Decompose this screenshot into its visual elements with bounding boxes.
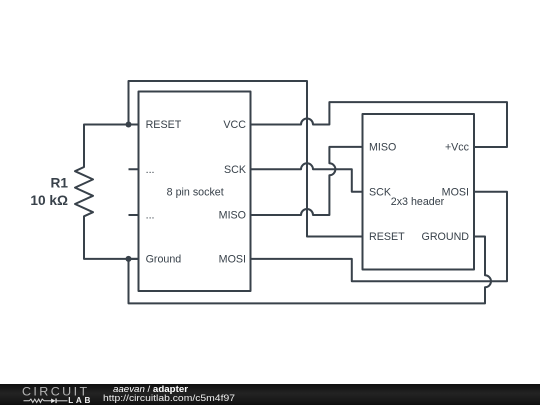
svg-text:SCK: SCK	[369, 186, 392, 198]
svg-text:Ground: Ground	[146, 254, 182, 266]
svg-text:R1: R1	[51, 176, 69, 191]
svg-text:RESET: RESET	[146, 119, 182, 131]
svg-text:8 pin socket: 8 pin socket	[167, 186, 224, 198]
svg-text:2x3 header: 2x3 header	[391, 196, 445, 208]
svg-text:GROUND: GROUND	[422, 231, 470, 243]
svg-text:...: ...	[146, 164, 155, 176]
svg-text:MOSI: MOSI	[219, 254, 246, 266]
svg-text:MOSI: MOSI	[442, 186, 469, 198]
svg-text:+Vcc: +Vcc	[445, 142, 470, 154]
svg-text:VCC: VCC	[223, 119, 246, 131]
svg-text:RESET: RESET	[369, 231, 405, 243]
svg-text:SCK: SCK	[224, 164, 247, 176]
svg-text:10 kΩ: 10 kΩ	[30, 193, 68, 208]
svg-text:MISO: MISO	[369, 142, 396, 154]
svg-text:http://circuitlab.com/c5m4f97: http://circuitlab.com/c5m4f97	[103, 393, 235, 403]
svg-text:LAB: LAB	[68, 396, 93, 405]
svg-text:...: ...	[146, 210, 155, 222]
svg-text:MISO: MISO	[219, 210, 246, 222]
